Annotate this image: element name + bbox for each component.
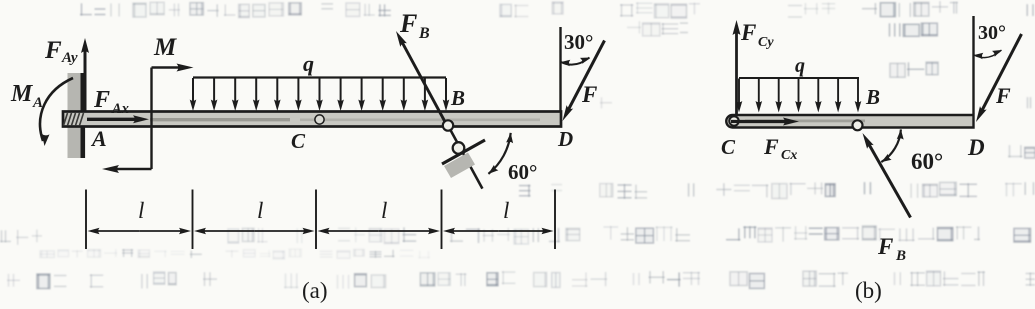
svg-text:q: q bbox=[303, 51, 314, 76]
svg-text:(a): (a) bbox=[302, 278, 328, 303]
svg-text:Ay: Ay bbox=[61, 50, 78, 66]
force F_B (b) bbox=[867, 141, 910, 217]
force F_B bbox=[401, 39, 447, 125]
pin at C (b) bbox=[729, 116, 738, 125]
part (a) bbox=[10, 9, 605, 303]
beam texture streak bbox=[150, 118, 290, 121]
svg-text:Cy: Cy bbox=[758, 35, 774, 50]
svg-text:l: l bbox=[257, 198, 263, 223]
vertical reference line at D bbox=[559, 27, 561, 111]
link rod at B bbox=[448, 126, 482, 189]
vertical reference line at D (b) bbox=[972, 16, 974, 114]
svg-text:A: A bbox=[32, 95, 43, 111]
svg-text:30°: 30° bbox=[978, 22, 1006, 44]
svg-text:l: l bbox=[381, 198, 387, 223]
force F_Cx bbox=[731, 120, 789, 123]
svg-text:60°: 60° bbox=[911, 149, 943, 174]
pin at B (b) bbox=[853, 120, 863, 130]
svg-text:F: F bbox=[877, 234, 893, 259]
inclined ground line bbox=[442, 140, 485, 164]
force F_Cy bbox=[735, 29, 738, 114]
fixed support wall at A bbox=[68, 73, 81, 158]
hatched ground block bbox=[444, 153, 475, 179]
couple M vertical link bbox=[150, 68, 152, 170]
svg-text:B: B bbox=[895, 248, 906, 264]
part (b) bbox=[721, 16, 1022, 303]
distributed load q on CB bbox=[190, 78, 450, 112]
svg-text:F: F bbox=[995, 83, 1011, 108]
couple M bottom arrow bbox=[112, 168, 151, 171]
pin at B bbox=[443, 120, 453, 130]
node C pin circle bbox=[315, 115, 324, 124]
svg-text:l: l bbox=[138, 198, 144, 223]
beam texture streak (b) bbox=[745, 120, 865, 123]
lower pin of link bbox=[453, 142, 465, 154]
force F_Ay bbox=[84, 47, 87, 112]
svg-text:F: F bbox=[581, 82, 597, 107]
svg-text:q: q bbox=[795, 55, 805, 77]
svg-text:30°: 30° bbox=[564, 30, 593, 54]
hatched embedded beam end bbox=[64, 113, 84, 126]
force F_Ax bbox=[87, 118, 139, 121]
svg-text:F: F bbox=[763, 134, 779, 159]
svg-text:A: A bbox=[90, 126, 107, 151]
svg-text:(b): (b) bbox=[855, 278, 882, 303]
force F at D (b) bbox=[980, 34, 1021, 114]
svg-text:B: B bbox=[865, 85, 880, 109]
beam AD bbox=[63, 112, 561, 127]
svg-text:F: F bbox=[740, 20, 756, 45]
svg-text:C: C bbox=[291, 129, 306, 153]
svg-text:C: C bbox=[721, 135, 736, 159]
svg-text:B: B bbox=[418, 25, 430, 42]
svg-text:F: F bbox=[399, 9, 417, 38]
svg-text:M: M bbox=[153, 34, 177, 61]
svg-text:l: l bbox=[503, 198, 509, 223]
dimension arrows bbox=[88, 228, 554, 234]
beam CD (b) bbox=[726, 115, 973, 128]
couple M top arrow bbox=[152, 66, 184, 69]
svg-text:F: F bbox=[44, 37, 62, 64]
svg-text:Cx: Cx bbox=[781, 148, 797, 163]
svg-text:D: D bbox=[557, 127, 573, 151]
force F at D bbox=[567, 41, 605, 113]
distributed load q (b) bbox=[736, 78, 862, 113]
angle arc 30 deg (a) bbox=[561, 58, 590, 65]
moment M_A arc bbox=[40, 78, 73, 141]
angle arc 30 deg (b) bbox=[974, 50, 1002, 58]
svg-text:D: D bbox=[967, 135, 985, 160]
angle arc 60 deg (b) bbox=[881, 129, 901, 162]
svg-text:B: B bbox=[450, 86, 465, 110]
svg-text:Ax: Ax bbox=[111, 101, 129, 117]
svg-text:M: M bbox=[10, 81, 34, 107]
svg-text:F: F bbox=[93, 87, 110, 113]
angle arc 60 deg (a) bbox=[488, 133, 510, 174]
dimension ticks bbox=[86, 190, 555, 250]
svg-text:60°: 60° bbox=[508, 160, 537, 184]
